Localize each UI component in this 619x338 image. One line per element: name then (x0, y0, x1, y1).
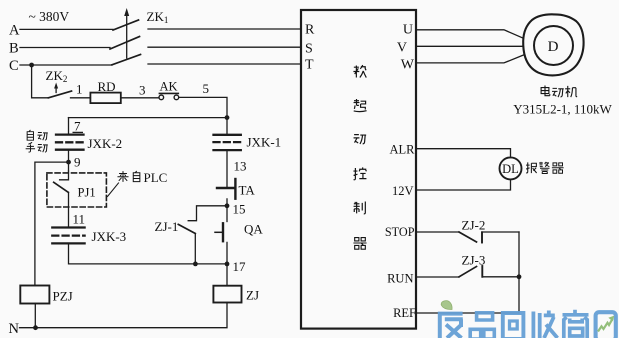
wire phase B right segment to S (148, 46, 301, 48)
svg-text:1: 1 (76, 82, 83, 97)
svg-text:TA: TA (239, 183, 256, 198)
svg-text:15: 15 (233, 202, 246, 217)
pushbutton AK (159, 95, 164, 100)
switch ZK1 blade phase B (110, 37, 140, 50)
wire U to motor (416, 30, 524, 39)
wire QA to node 17 (226, 242, 228, 264)
watermark char 品 (470, 313, 494, 338)
wire STOP to ZJ-2 (416, 231, 459, 233)
svg-text:R: R (305, 22, 315, 37)
watermark char 废 (438, 312, 463, 338)
svg-text:DL: DL (502, 162, 519, 176)
label 手动 (26, 142, 35, 152)
svg-text:T: T (305, 58, 314, 73)
alarm DL circle (500, 157, 522, 179)
label 报警器 (526, 162, 537, 173)
wire C tap down to ZK2 (32, 65, 49, 98)
soft starter controller box U1 (301, 10, 416, 329)
wire ZJ up to node 17 (226, 264, 228, 286)
svg-text:QA: QA (244, 222, 263, 237)
svg-text:N: N (9, 321, 20, 337)
svg-text:~ 380V: ~ 380V (29, 9, 70, 24)
svg-text:ZJ-2: ZJ-2 (462, 218, 486, 233)
wire TA to node 15 (226, 199, 228, 222)
svg-text:ZJ: ZJ (246, 288, 259, 303)
wire PJ1 to JXK-3 (68, 192, 70, 227)
wire phase C left segment (20, 64, 112, 66)
svg-text:PZJ: PZJ (53, 289, 73, 304)
node 17 (225, 262, 230, 267)
coil PZJ (20, 286, 49, 304)
wire node5 to corner and down (179, 97, 227, 134)
svg-text:9: 9 (74, 155, 81, 170)
contact ZJ-2 blade (459, 232, 477, 242)
wire ZK2 to RD (71, 97, 91, 99)
wire phase A left segment (20, 28, 113, 30)
wire RD to AK (121, 97, 159, 99)
wire JXK-3 down to bottom rail (69, 243, 228, 264)
node 15 (225, 203, 230, 208)
switch ZK1 blade phase C (112, 55, 141, 65)
svg-text:RUN: RUN (387, 272, 413, 286)
wire PZJ to N (34, 304, 36, 328)
contact ZJ-2 fixed bar (481, 232, 483, 242)
svg-text:12V: 12V (392, 184, 414, 198)
wire phase C right segment to T (148, 63, 301, 65)
wire phase B left segment (20, 47, 110, 49)
contact JXK-1 (214, 134, 241, 136)
node on N line (33, 325, 38, 330)
node 9 (66, 160, 71, 165)
watermark char 收 (533, 311, 557, 338)
wire V to motor (416, 45, 524, 47)
watermark char 回 (503, 313, 524, 338)
wire alarm to 12V (416, 179, 511, 190)
label 电动机 (541, 86, 550, 96)
watermark sprout leaf (441, 301, 452, 310)
switch ZK1 linkage arrow (126, 14, 128, 58)
wire ALR to alarm (416, 149, 511, 158)
svg-text:13: 13 (234, 159, 247, 174)
svg-text:ALR: ALR (390, 143, 416, 157)
svg-text:REF: REF (393, 306, 416, 320)
switch ZK1 blade phase A (113, 20, 139, 30)
wire phase A right segment to R (148, 28, 301, 30)
svg-text:RD: RD (98, 79, 116, 94)
svg-text:PJ1: PJ1 (78, 186, 96, 200)
svg-text:U: U (403, 23, 413, 38)
wire branch to ZJ-1 (188, 206, 227, 221)
wire ZJ-2 to bus (482, 231, 519, 233)
contact ZJ-3 blade (459, 267, 477, 277)
svg-text:17: 17 (233, 259, 247, 274)
label 来自PLC (117, 171, 128, 182)
contact JXK-3 (52, 226, 84, 228)
motor M outer frame (523, 14, 583, 75)
svg-text:JXK-2: JXK-2 (88, 136, 123, 151)
svg-text:B: B (9, 41, 19, 57)
svg-text:3: 3 (139, 83, 146, 98)
watermark logo chart arrow (598, 319, 613, 332)
pointer line to 来自PLC (108, 183, 119, 197)
node ZJ-1 bottom (193, 262, 198, 267)
relay contact PJ1 dashed enclosure (47, 173, 107, 207)
contact JXK-2 (56, 133, 84, 135)
node junction 117 (225, 115, 230, 120)
svg-text:Y315L2-1, 110kW: Y315L2-1, 110kW (513, 102, 612, 117)
svg-text:5: 5 (203, 81, 210, 96)
svg-text:W: W (401, 57, 415, 72)
watermark logo square (596, 312, 616, 338)
wire node7 horizontal (69, 117, 228, 119)
svg-text:JXK-3: JXK-3 (92, 229, 127, 244)
node bus ZJ-3 (517, 274, 522, 279)
svg-text:PLC: PLC (144, 170, 168, 185)
svg-text:11: 11 (73, 212, 86, 227)
wire ZJ-1 down (194, 234, 196, 264)
switch ZK2 arrow (55, 87, 57, 93)
switch ZK2 blade (48, 91, 71, 98)
wire branch node9 to left rail (35, 162, 69, 285)
svg-text:7: 7 (74, 118, 81, 133)
contact ZJ-3 fixed bar (481, 266, 483, 277)
wire RUN to ZJ-3 (416, 276, 459, 278)
wire REF (416, 312, 519, 314)
wire JXK-2 to node 9 (68, 150, 70, 171)
wire W to motor (416, 55, 524, 63)
wire N line (20, 303, 228, 328)
svg-text:ZJ-1: ZJ-1 (155, 219, 179, 234)
watermark char 商 (563, 310, 589, 338)
contact ZJ-1 blade (178, 224, 195, 233)
watermark 废品回收商网 (438, 301, 616, 338)
wire right bus (518, 232, 520, 313)
svg-text:STOP: STOP (385, 225, 415, 239)
svg-text:JXK-1: JXK-1 (247, 135, 282, 150)
svg-text:AK: AK (160, 80, 178, 94)
node on phase C (29, 63, 34, 68)
pushbutton QA (222, 223, 224, 241)
svg-text:A: A (9, 23, 20, 39)
contact PJ1 (60, 171, 69, 180)
motor inner circle (534, 26, 573, 65)
svg-text:V: V (397, 41, 407, 56)
svg-text:ZJ-3: ZJ-3 (462, 253, 486, 268)
fuse RD (90, 93, 120, 104)
svg-text:D: D (548, 39, 559, 55)
wire down to JXK-2 (68, 118, 70, 135)
label 自动 (27, 130, 33, 140)
svg-text:S: S (305, 41, 313, 56)
coil ZJ (213, 286, 241, 303)
wire JXK-1 to TA (226, 150, 228, 188)
svg-text:C: C (9, 58, 19, 74)
wire ZJ-3 to bus (482, 276, 519, 278)
contact TA (217, 187, 234, 189)
label 软起动控制器 vertical (353, 65, 366, 77)
